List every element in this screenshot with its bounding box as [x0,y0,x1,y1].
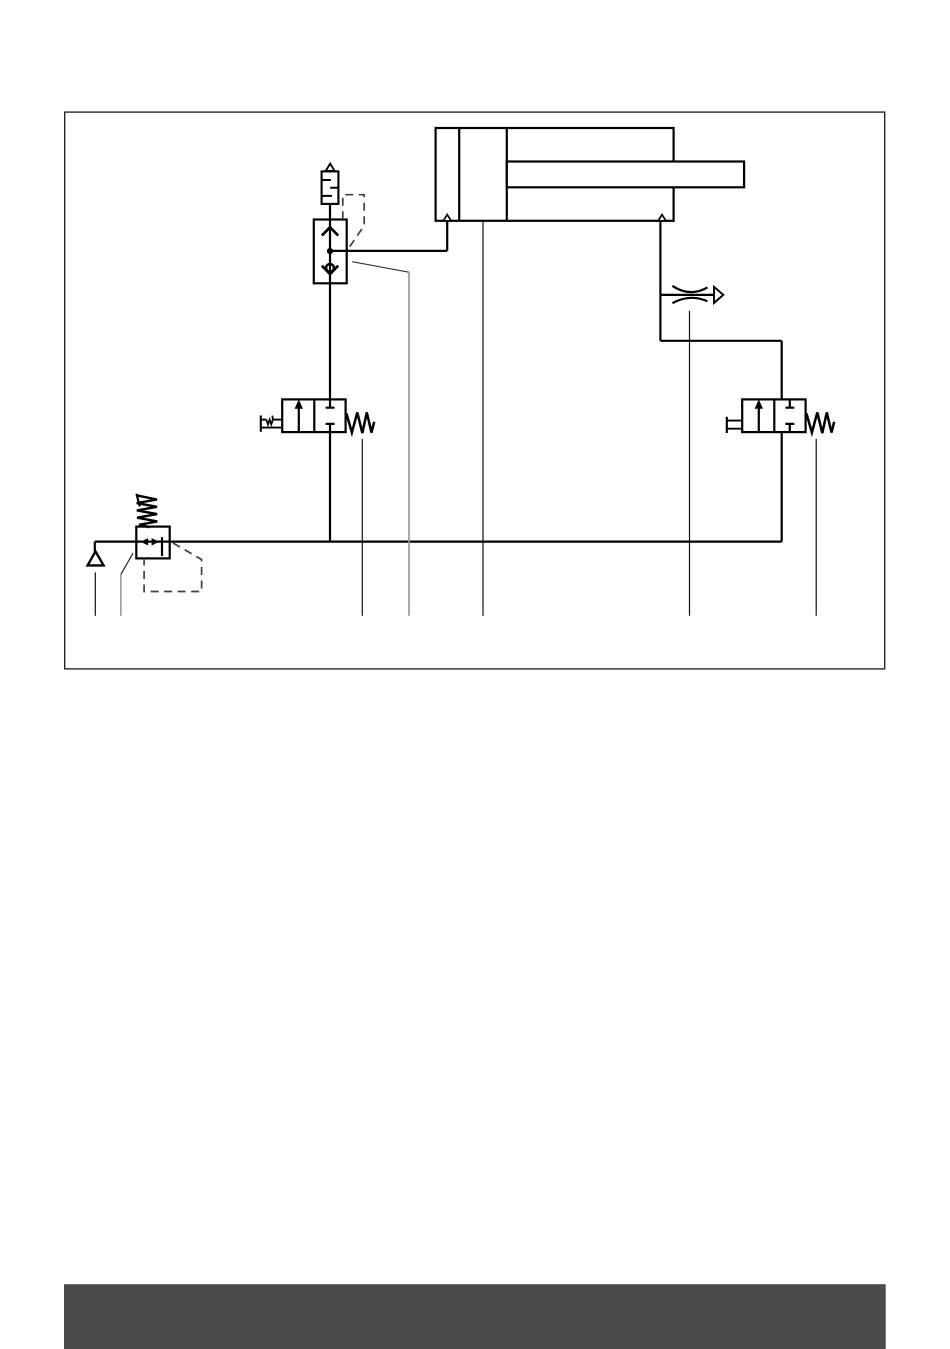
pressure regulator 0Z spring [137,494,140,507]
leader line: flow indicator [689,311,691,616]
valve 1V2 blocked port tees [785,400,794,432]
valve 1V2 body (3/2 way) [742,399,805,432]
quick exhaust valve ball [326,264,334,272]
wire: supply manifold [95,540,782,542]
leader line: valve 1V2 spring [815,439,817,616]
leader line: source [94,572,96,615]
valve 1V2 flow arrow [758,407,760,432]
cylinder piston rod [507,162,744,188]
leader line: regulator vertical [120,574,122,615]
leader line: cylinder [482,222,484,616]
wire: valve 1V2 top pipe [781,341,783,400]
cylinder 1A (double-acting) barrel [436,128,674,221]
footer bar [64,1284,886,1349]
valve 1V1 detent actuator [260,416,262,432]
leader line: regulator diagonal [121,553,133,574]
silencer body [322,171,339,204]
pressure regulator body [136,527,169,559]
wire: right port down [659,221,661,341]
wire: valve 1V1 down to supply manifold [329,432,331,541]
exhaust flow indicator with throttle arcs [660,294,714,296]
wire: horizontal run under flow indicator [660,340,781,342]
wire: silencer through quick-exhaust valve down to valve 1V1 [329,204,331,400]
silencer baffles [322,180,339,196]
wire: left port to quick-exhaust valve [330,221,447,251]
wire: manifold up to valve 1V2 bottom [781,432,783,541]
valve 1V1 return spring [346,412,374,433]
pressure regulator flow arrows [142,539,148,545]
cylinder left port [443,215,451,221]
pressure regulator pilot line (dashed) [144,543,202,592]
valve 1V1 body (3/2 way) [282,399,345,432]
valve 1V1 flow arrow [298,407,300,432]
leader line: quick exhaust diagonal [352,262,409,273]
pilot line (dashed) of quick exhaust valve [343,195,364,251]
quick exhaust valve body [314,220,347,284]
wire: manifold drop to source [94,542,96,552]
pressure regulator seat bar [161,537,163,556]
cylinder right port [658,215,666,221]
compressed air source [88,551,104,565]
quick exhaust valve lower check chevron [322,266,338,274]
quick exhaust valve upper check chevron [322,227,338,235]
leader line: valve 1V1 spring [361,439,363,616]
cylinder piston [459,128,507,221]
silencer exhaust triangle [326,164,335,171]
valve 1V2 return spring [806,412,834,433]
node: quick exhaust junction dot [327,248,333,254]
valve 1V1 blocked port tees [326,400,335,432]
valve 1V2 plunger actuator [726,417,728,433]
leader line: quick exhaust vertical [408,272,410,616]
